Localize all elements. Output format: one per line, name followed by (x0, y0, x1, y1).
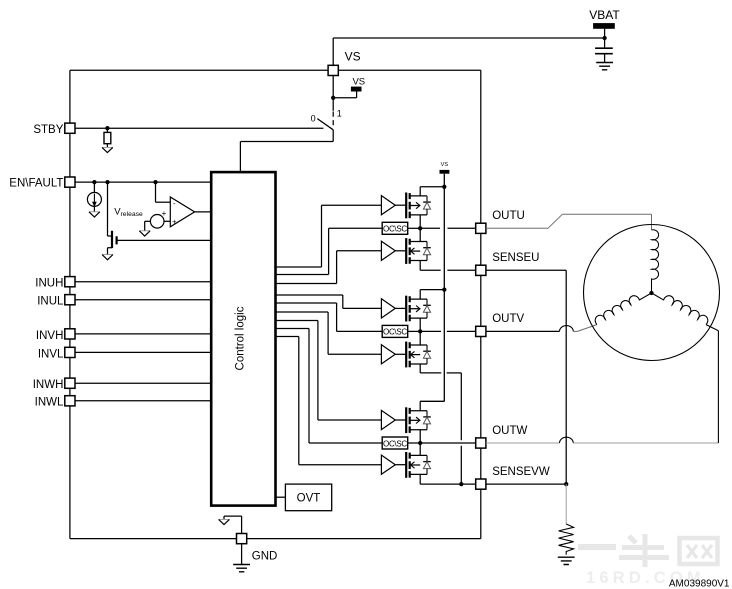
wire OUTV to motor winding V (with hop) (486, 325, 597, 332)
node vs rail tap U (442, 185, 446, 189)
wire control logic to OVT (276, 496, 286, 498)
transistor V high-side MOSFET with body diode (406, 296, 431, 322)
svg-text:AM039890V1: AM039890V1 (669, 578, 730, 589)
wire VBAT down to VS pin (332, 38, 334, 65)
wire EN\FAULT to control logic (70, 181, 211, 183)
node sense VW junction (459, 482, 463, 486)
wire W high gate (395, 419, 406, 421)
ground (VBAT cap) (596, 63, 613, 70)
wire GND pin riser (224, 516, 242, 533)
wire phase V to OUTV pin (420, 330, 481, 332)
wire comparator output to control logic (195, 211, 212, 213)
switch arm (317, 119, 333, 130)
svg-text:1: 1 (337, 109, 342, 119)
wire SENSEVW junction (564, 482, 568, 486)
wire INVL to control logic (70, 351, 211, 353)
wire W high drain to vs rail (420, 401, 444, 410)
svg-text:INWL: INWL (35, 397, 64, 409)
op-amp driver U high-side (381, 196, 395, 215)
wire VS pin to switch (332, 76, 334, 111)
ground (current source) (89, 212, 100, 217)
watermark logo (578, 534, 718, 567)
pin EN\FAULT (65, 177, 75, 187)
wire U low gate (395, 250, 406, 252)
node VBAT junction (602, 36, 606, 40)
wire INUH to control logic (70, 281, 211, 283)
svg-text:INVL: INVL (38, 348, 64, 360)
wire W low drain to phase node (419, 443, 421, 455)
capacitor C1 VBAT decoupling (595, 48, 613, 62)
wire control logic to V high driver (276, 295, 382, 308)
wire W low source to SENSEVW (420, 474, 481, 484)
supply tap vs (bridge rail) (440, 162, 450, 174)
OC\SC block U (382, 222, 408, 234)
wire V low gate (395, 353, 406, 355)
op-amp driver V low-side (381, 345, 395, 364)
inductor winding W (right) (652, 287, 710, 325)
op-amp driver W low-side (381, 455, 395, 474)
wire vs rail (420, 174, 444, 402)
ground (Q1 source) (102, 255, 113, 260)
transistor Q1 fault pulldown (108, 182, 117, 254)
node motor star point (649, 291, 653, 295)
wire GND pin to earth (241, 544, 243, 565)
svg-text:INUH: INUH (35, 278, 63, 290)
svg-text:VS: VS (345, 50, 361, 64)
svg-text:SENSEVW: SENSEVW (492, 466, 550, 478)
svg-text:+: + (162, 209, 167, 218)
wire U low source to SENSEU (420, 261, 481, 271)
ground (STBY resistor) (102, 147, 113, 152)
node STBY resistor tap (105, 126, 109, 130)
node VS junction (331, 96, 335, 100)
svg-text:OUTU: OUTU (492, 210, 525, 222)
wire control logic to V OC\SC (276, 303, 383, 331)
svg-text:Control logic: Control logic (235, 306, 247, 370)
wire phase W to OUTW pin (420, 442, 481, 444)
svg-text:VS: VS (352, 76, 365, 87)
op-amp U2 release comparator (170, 197, 194, 227)
svg-text:OUTV: OUTV (492, 313, 524, 325)
svg-text:OVT: OVT (297, 493, 321, 505)
wire VBAT to VS pin (333, 37, 604, 39)
pin INWL (65, 396, 75, 406)
wire switch common to control logic (240, 130, 333, 172)
wire phase U to OUTU pin (420, 227, 481, 229)
pin OUTW (476, 438, 486, 448)
svg-text:INUL: INUL (37, 296, 64, 308)
svg-text:VS: VS (441, 162, 449, 168)
pin INVL (65, 347, 75, 357)
pin GND (237, 534, 247, 544)
wire V high gate (395, 307, 406, 309)
transistor U high-side MOSFET with body diode (406, 193, 431, 219)
transistor U low-side MOSFET with body diode (406, 238, 431, 264)
ground (Vrelease) (139, 231, 150, 236)
wire V high drain to vs rail (420, 290, 444, 300)
svg-text:+: + (172, 217, 177, 226)
supply tap VS (small bar) (333, 76, 365, 97)
wire control logic to W OC\SC (276, 329, 383, 444)
op-amp driver U low-side (381, 241, 395, 260)
node phase W (418, 441, 422, 445)
wire comparator inverting input (156, 182, 171, 202)
wire U low drain to phase node (419, 228, 421, 241)
supply VBAT (589, 8, 620, 48)
voltage source Vrelease (145, 209, 167, 231)
resistor R1 STBY pulldown (104, 128, 111, 147)
pin INUH (65, 277, 75, 287)
svg-text:SENSEU: SENSEU (492, 252, 539, 264)
pin INVH (65, 329, 75, 339)
node EN mosfet tap (105, 180, 109, 184)
svg-text:GND: GND (252, 551, 278, 563)
inductor winding V (left) (593, 287, 651, 325)
svg-text:VBAT: VBAT (589, 8, 620, 22)
inductor winding U (top) (652, 230, 659, 293)
node phase V (418, 329, 422, 333)
wire Vrelease to comparator (164, 220, 170, 222)
switch position 1 (dashed) (332, 112, 334, 128)
ground (signal, near GND pin) (219, 519, 230, 524)
OVT block (285, 484, 331, 511)
wire OC\SC U to phase node (408, 227, 421, 229)
wire control logic to V low driver (276, 312, 382, 354)
wire SENSEVW pin to sense junction (486, 483, 566, 485)
pin SENSEVW (476, 479, 486, 489)
pin INUL (65, 295, 75, 305)
wire U high gate (395, 204, 406, 206)
node vs rail tap V (442, 287, 446, 291)
svg-text:EN\FAULT: EN\FAULT (9, 178, 63, 190)
svg-text:INWH: INWH (33, 379, 64, 391)
wire OC\SC W to phase node (408, 442, 421, 444)
wire U high source to phase node (419, 215, 421, 228)
svg-text:STBY: STBY (33, 124, 63, 136)
wire U high drain to vs rail (420, 187, 444, 196)
svg-text:0: 0 (311, 114, 316, 124)
wire OUTW to motor winding W (with hop) (486, 325, 719, 443)
ground (GND pin earth) (233, 565, 250, 572)
OC\SC block W (382, 437, 408, 449)
ground (sense resistor) (558, 557, 575, 564)
pin VS (328, 65, 338, 75)
wire V high source to phase node (419, 318, 421, 331)
wire control logic to U low driver (276, 251, 382, 284)
wire control logic to U OC\SC (276, 228, 383, 274)
wire SENSEU to sense resistor (486, 270, 566, 484)
op-amp driver V high-side (381, 299, 395, 318)
svg-text:INVH: INVH (36, 330, 63, 342)
svg-text:OUTW: OUTW (492, 425, 527, 437)
wire INUL to control logic (70, 299, 211, 301)
transistor W high-side MOSFET with body diode (406, 407, 431, 433)
motor circle (584, 225, 720, 361)
transistor V low-side MOSFET with body diode (406, 342, 431, 368)
pin OUTV (476, 326, 486, 336)
transistor W low-side MOSFET with body diode (406, 452, 431, 478)
wire STBY to switch throw 0 (70, 127, 324, 129)
wire INVH to control logic (70, 333, 211, 335)
wire control logic to U high driver (276, 205, 382, 267)
node phase U (418, 226, 422, 230)
pin STBY (65, 123, 75, 133)
current source I1 (87, 182, 101, 212)
control logic block U1 (211, 172, 275, 506)
wire V low drain to phase node (419, 331, 421, 345)
OC\SC block V (382, 325, 408, 337)
wire control logic to W high driver (276, 321, 382, 421)
resistor Rsense (559, 524, 574, 555)
wire V low source to sense net (420, 364, 461, 484)
wire INWL to control logic (70, 400, 211, 402)
IC boundary box (70, 70, 481, 538)
wire OUTU to motor winding U (486, 214, 652, 230)
pin OUTU (476, 223, 486, 233)
pin SENSEU (476, 265, 486, 275)
wire OC\SC V to phase node (408, 330, 421, 332)
wire Q1 gate to control logic (117, 239, 212, 241)
wire control logic to W low driver (276, 337, 382, 465)
wire W high source to phase node (419, 430, 421, 443)
node comparator tap (153, 180, 157, 184)
pin INWH (65, 378, 75, 388)
node EN current source tap (92, 180, 96, 184)
wire INWH to control logic (70, 382, 211, 384)
op-amp driver W high-side (381, 410, 395, 429)
wire sense junction to resistor (565, 484, 567, 524)
wire W low gate (395, 464, 406, 466)
